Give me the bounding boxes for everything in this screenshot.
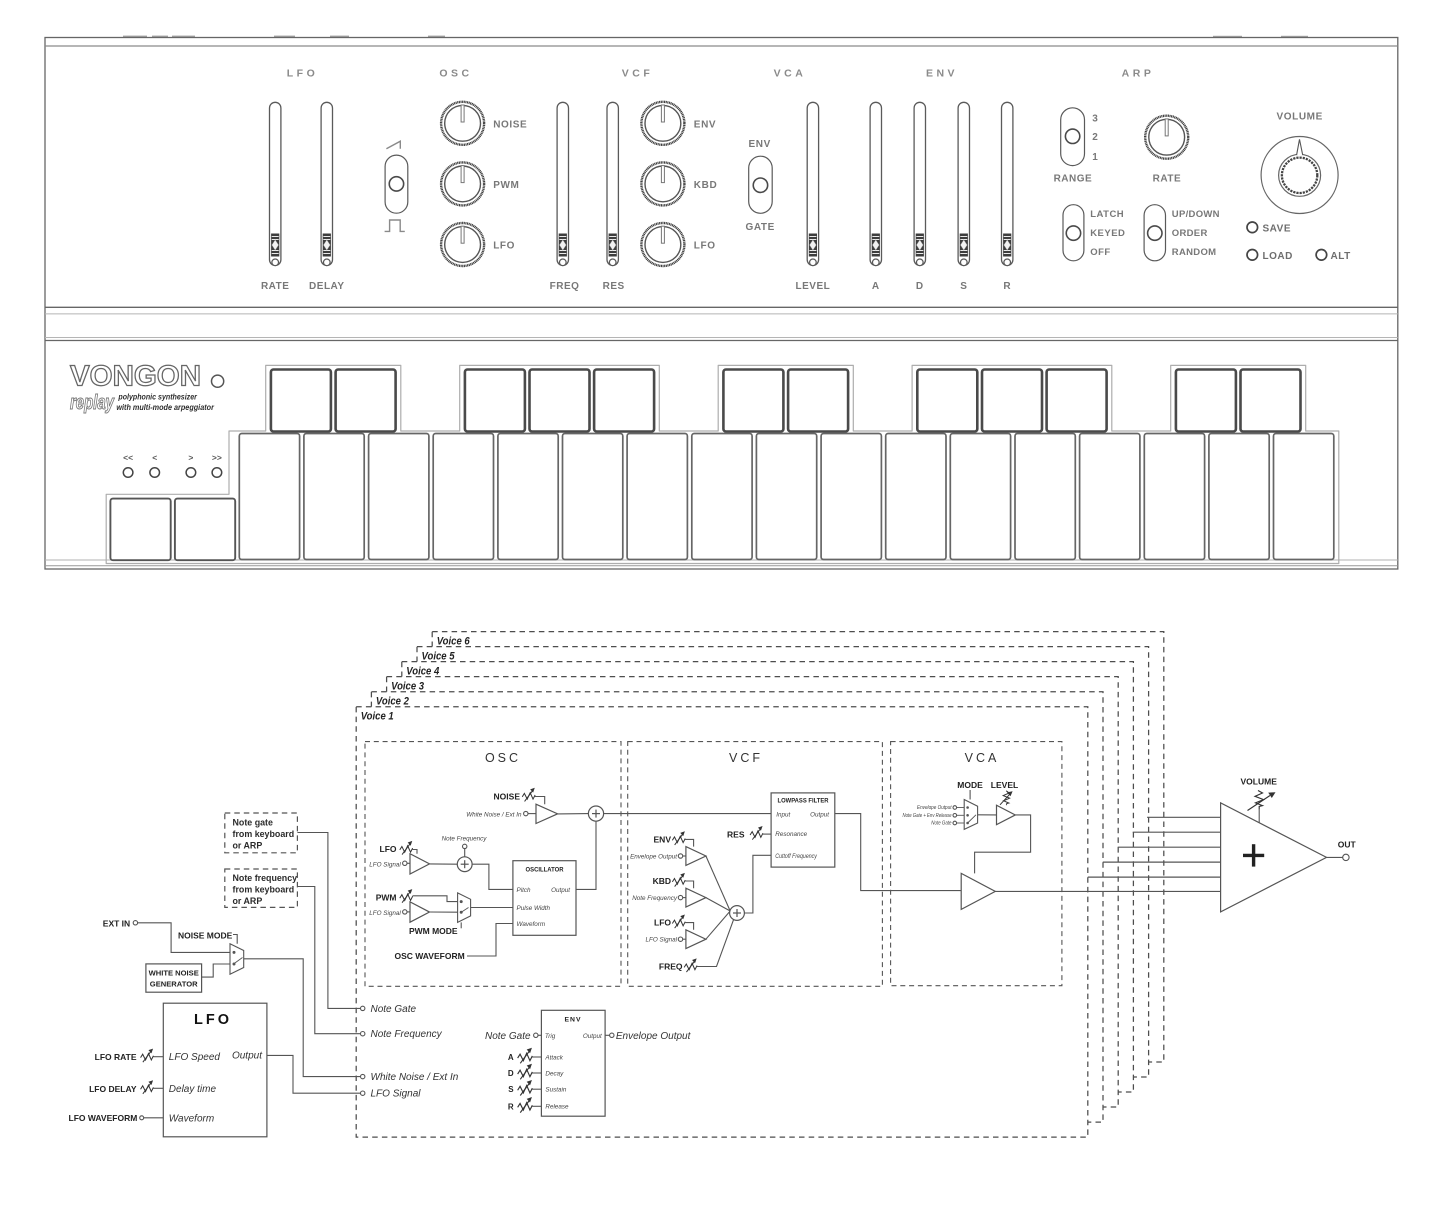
ENV Envelope Output [605,1034,610,1036]
svg-text:Decay: Decay [545,1070,564,1077]
svg-text:LOWPASS FILTER: LOWPASS FILTER [778,798,829,805]
svg-text:ENV: ENV [926,68,958,80]
svg-text:VCA: VCA [774,68,807,80]
svg-text:LFO: LFO [194,1012,232,1028]
svg-text:RANGE: RANGE [1054,174,1093,185]
ALT button [1316,250,1327,261]
svg-text:VCF: VCF [622,68,654,80]
Note frequency from keyboard dashed box [225,869,298,907]
keyboard cutout outline [106,365,1339,563]
OSCILLATOR box [513,861,576,936]
svg-text:OUT: OUT [1338,840,1357,850]
slider FREQ [557,102,568,265]
svg-text:Waveform: Waveform [169,1114,214,1125]
svg-text:R: R [508,1102,514,1111]
svg-text:VONGON: VONGON [70,361,201,393]
svg-text:Voice 1: Voice 1 [361,711,394,723]
svg-text:Note Frequency: Note Frequency [632,895,678,902]
summing mixer amp [1221,803,1327,912]
svg-text:Attack: Attack [544,1054,563,1061]
svg-text:ARP: ARP [1122,68,1155,80]
svg-text:LFO Speed: LFO Speed [169,1052,221,1063]
svg-text:MODE: MODE [957,780,983,790]
svg-text:NOISE: NOISE [493,119,527,130]
slider R [1002,102,1013,265]
wire WNG to mux [202,964,230,977]
svg-text:SAVE: SAVE [1263,223,1292,234]
svg-text:Input: Input [776,812,790,819]
svg-text:Release: Release [545,1104,569,1111]
svg-text:Waveform: Waveform [517,921,546,928]
ARP mode toggle UP/DOWN ORDER RANDOM [1144,205,1165,261]
VCA level amp [997,805,1016,825]
svg-text:Note Gate: Note Gate [931,821,951,827]
wire mux to white noise terminal [244,959,361,1077]
wire level amp to vca amp [975,815,1031,874]
svg-text:Envelope Output: Envelope Output [630,853,677,860]
LFO amp [410,854,430,874]
svg-text:Envelope Output: Envelope Output [917,805,952,811]
svg-text:WHITE NOISE: WHITE NOISE [149,969,199,978]
svg-text:from keyboard: from keyboard [233,885,295,895]
svg-text:or ARP: or ARP [233,841,263,851]
svg-text:VOLUME: VOLUME [1277,112,1323,123]
svg-text:Voice 2: Voice 2 [376,696,409,708]
svg-text:LATCH: LATCH [1090,209,1124,220]
knob PWM [441,162,484,205]
svg-text:D: D [508,1069,514,1078]
svg-text:NOISE MODE: NOISE MODE [178,930,233,940]
svg-text:FREQ: FREQ [659,962,683,972]
svg-text:LFO WAVEFORM: LFO WAVEFORM [69,1113,138,1123]
svg-text:Output: Output [551,887,570,894]
slider RES [607,102,618,265]
slider RATE [270,102,281,265]
svg-text:ORDER: ORDER [1172,228,1208,239]
OUT terminal [1327,856,1343,858]
svg-text:GATE: GATE [745,222,774,233]
svg-text:S: S [960,281,967,292]
svg-text:Cuttoff Frequency: Cuttoff Frequency [775,853,817,860]
svg-text:<<: << [123,453,133,463]
svg-text:Sustain: Sustain [545,1087,567,1094]
VCF section box [628,742,883,987]
noise amp [536,804,558,823]
svg-text:LFO DELAY: LFO DELAY [89,1084,137,1094]
svg-text:PWM MODE: PWM MODE [409,926,458,936]
svg-text:LFO RATE: LFO RATE [95,1052,137,1062]
voice input terminals [361,1006,365,1010]
PWM MODE mux [458,893,471,923]
VCA amp [961,873,995,909]
svg-text:LEVEL: LEVEL [991,780,1018,790]
svg-text:Note gate: Note gate [233,818,274,828]
svg-text:Envelope Output: Envelope Output [616,1031,692,1042]
wire oscillator output up to sum [576,821,596,889]
svg-text:OFF: OFF [1090,247,1111,258]
svg-text:Pitch: Pitch [517,887,531,894]
svg-text:Note Frequency: Note Frequency [371,1029,443,1040]
svg-text:OSCILLATOR: OSCILLATOR [526,867,564,874]
svg-text:>: > [188,453,193,463]
svg-text:KBD: KBD [653,876,671,886]
svg-text:Voice 5: Voice 5 [422,650,456,662]
svg-text:VOLUME: VOLUME [1241,777,1278,787]
knob VCF LFO [641,223,684,266]
svg-text:White Noise / Ext In: White Noise / Ext In [371,1072,459,1083]
svg-text:Output: Output [232,1051,263,1062]
wire amp to sum [558,813,589,815]
noise mode mux [230,944,244,975]
svg-text:RES: RES [727,829,745,839]
svg-text:>>: >> [212,453,222,463]
octave down button [110,499,170,561]
svg-text:Note Gate: Note Gate [371,1004,417,1015]
svg-text:KBD: KBD [694,180,717,191]
VCF mod sum junction [730,906,745,921]
svg-text:Voice 4: Voice 4 [406,665,439,677]
svg-text:ENV: ENV [565,1017,582,1024]
svg-text:R: R [1003,281,1011,292]
svg-text:3: 3 [1092,114,1098,125]
svg-text:Resonance: Resonance [775,831,807,838]
svg-text:Voice 6: Voice 6 [437,635,471,647]
voice box Voice 2 [371,692,1103,1122]
LOWPASS FILTER box [771,793,835,867]
slider A [870,102,881,265]
svg-text:Pulse Width: Pulse Width [517,905,551,912]
OSC waveform toggle switch [386,141,400,149]
svg-text:LFO: LFO [694,241,716,252]
svg-text:PWM: PWM [493,180,519,191]
svg-text:ENV: ENV [749,139,771,150]
svg-text:LFO: LFO [380,844,397,854]
lowpass output wire to VCA [835,814,961,891]
svg-text:Note Frequency: Note Frequency [442,836,488,843]
svg-text:ALT: ALT [1331,251,1351,262]
svg-text:replay: replay [70,392,115,414]
SAVE button [1247,222,1258,233]
svg-text:A: A [508,1053,514,1062]
synth top panel chassis [123,36,1308,38]
voice box Voice 4 [402,662,1134,1092]
svg-text:VCA: VCA [965,751,1000,765]
wire sum to lowpass input [604,813,771,815]
svg-text:LFO Signal: LFO Signal [371,1089,422,1100]
svg-text:LFO: LFO [493,241,515,252]
wire lfo amp to pitch sum [430,863,458,865]
slider DELAY [321,102,332,265]
knob NOISE [441,102,484,145]
wire noise pot to amp [535,797,545,805]
wire sum to cutoff [744,855,771,913]
slider D [914,102,925,265]
Note gate from keyboard dashed box [225,813,298,853]
svg-text:from keyboard: from keyboard [233,829,295,839]
slider LEVEL [807,102,818,265]
svg-text:KEYED: KEYED [1090,228,1125,239]
OSC section box [365,742,621,987]
svg-text:NOISE: NOISE [494,792,521,802]
voice box Voice 6 [432,632,1164,1062]
LFO box [163,1003,267,1137]
svg-text:or ARP: or ARP [233,896,263,906]
octave up button [175,499,235,561]
svg-text:Output: Output [583,1033,602,1040]
WHITE NOISE GENERATOR box [146,964,202,992]
white keys [239,434,299,560]
knob OSC LFO [441,223,484,266]
voice box Voice 5 [417,647,1149,1077]
svg-text:<: < [152,453,157,463]
knob ENV [641,102,684,145]
svg-text:OSC WAVEFORM: OSC WAVEFORM [394,951,464,961]
svg-text:DELAY: DELAY [309,281,344,292]
svg-text:A: A [872,281,880,292]
svg-text:LOAD: LOAD [1263,251,1293,262]
svg-text:ENV: ENV [654,834,672,844]
LOAD button [1247,250,1258,261]
svg-text:GENERATOR: GENERATOR [150,980,198,989]
wire mux to pulse width [471,907,513,909]
PWM amp [410,902,430,922]
ARP RANGE toggle [1061,108,1085,166]
svg-text:Trig: Trig [545,1033,556,1040]
svg-text:RATE: RATE [261,281,289,292]
wire note gate to voice [297,833,360,1009]
svg-text:LFO Signal: LFO Signal [646,937,678,944]
ARP LATCH/KEYED/OFF toggle [1063,205,1084,261]
svg-text:LFO Signal: LFO Signal [369,861,401,868]
svg-text:UP/DOWN: UP/DOWN [1172,209,1220,220]
ENV block [541,1010,605,1116]
svg-text:VCF: VCF [729,751,763,765]
voice output lines to mixer [1147,816,1221,818]
pitch sum junction [457,857,472,872]
VCA section box [891,742,1062,986]
svg-text:1: 1 [1092,152,1098,163]
knob ARP RATE [1145,116,1188,159]
svg-text:EXT IN: EXT IN [103,919,130,929]
LFO output wire [267,1055,360,1093]
svg-text:with multi-mode arpeggiator: with multi-mode arpeggiator [116,402,214,412]
svg-text:LFO Signal: LFO Signal [369,910,401,917]
svg-text:polyphonic synthesizer: polyphonic synthesizer [118,392,198,402]
svg-text:LEVEL: LEVEL [796,281,831,292]
VCA output wire to mixer [995,890,1220,892]
svg-text:S: S [508,1085,514,1094]
svg-text:FREQ: FREQ [550,281,580,292]
svg-text:LFO: LFO [287,68,319,80]
svg-text:RATE: RATE [1153,174,1181,185]
svg-text:Delay time: Delay time [169,1084,217,1095]
svg-text:White Noise / Ext In: White Noise / Ext In [466,811,522,818]
svg-text:2: 2 [1092,132,1098,143]
svg-text:Voice 3: Voice 3 [391,680,424,692]
wire note frequency to voice [297,887,360,1034]
svg-text:OSC: OSC [439,68,472,80]
OSC output sum junction [588,806,603,821]
svg-text:Note frequency: Note frequency [233,873,298,883]
svg-text:Note Gate: Note Gate [485,1031,531,1042]
svg-text:LFO: LFO [654,918,671,928]
svg-text:RANDOM: RANDOM [1172,247,1217,258]
svg-text:ENV: ENV [694,119,716,130]
svg-text:RES: RES [603,281,625,292]
black keys [271,370,331,432]
voice box Voice 3 [387,677,1119,1107]
slider S [958,102,969,265]
knob KBD [641,162,684,205]
svg-text:PWM: PWM [376,892,397,902]
svg-text:D: D [916,281,924,292]
voice box Voice 1 [356,707,1088,1137]
svg-text:Note Gate + Env Release: Note Gate + Env Release [903,813,952,819]
svg-text:OSC: OSC [485,751,521,765]
svg-text:Output: Output [810,812,829,819]
